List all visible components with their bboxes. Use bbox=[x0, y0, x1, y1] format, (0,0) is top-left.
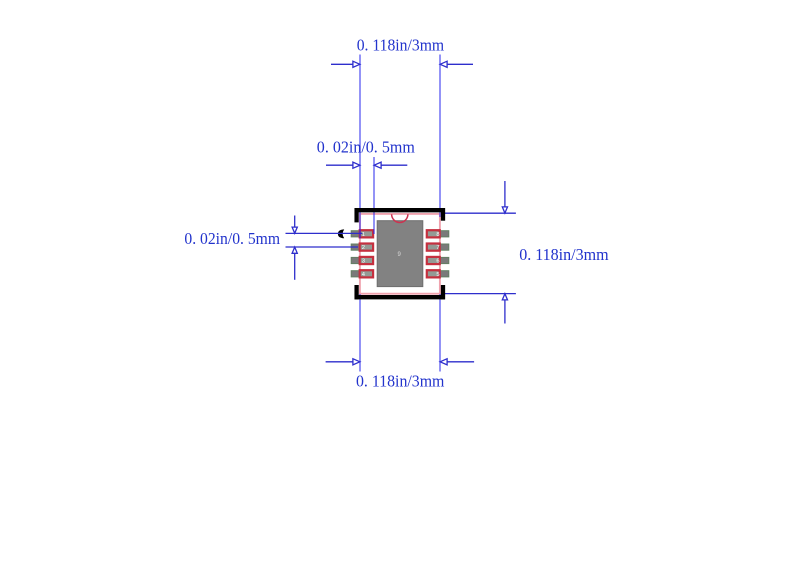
svg-text:0. 118in/3mm: 0. 118in/3mm bbox=[519, 245, 609, 264]
svg-text:6: 6 bbox=[436, 259, 439, 265]
svg-text:0. 02in/0. 5mm: 0. 02in/0. 5mm bbox=[317, 138, 416, 157]
svg-text:0. 118in/3mm: 0. 118in/3mm bbox=[357, 36, 445, 55]
svg-text:3: 3 bbox=[362, 259, 365, 265]
svg-text:7: 7 bbox=[436, 245, 439, 251]
svg-text:8: 8 bbox=[436, 232, 439, 238]
svg-text:0. 02in/0. 5mm: 0. 02in/0. 5mm bbox=[184, 229, 280, 248]
svg-text:5: 5 bbox=[436, 272, 439, 278]
svg-text:0. 118in/3mm: 0. 118in/3mm bbox=[356, 371, 445, 390]
svg-text:2: 2 bbox=[362, 245, 365, 251]
svg-text:1: 1 bbox=[362, 232, 365, 238]
